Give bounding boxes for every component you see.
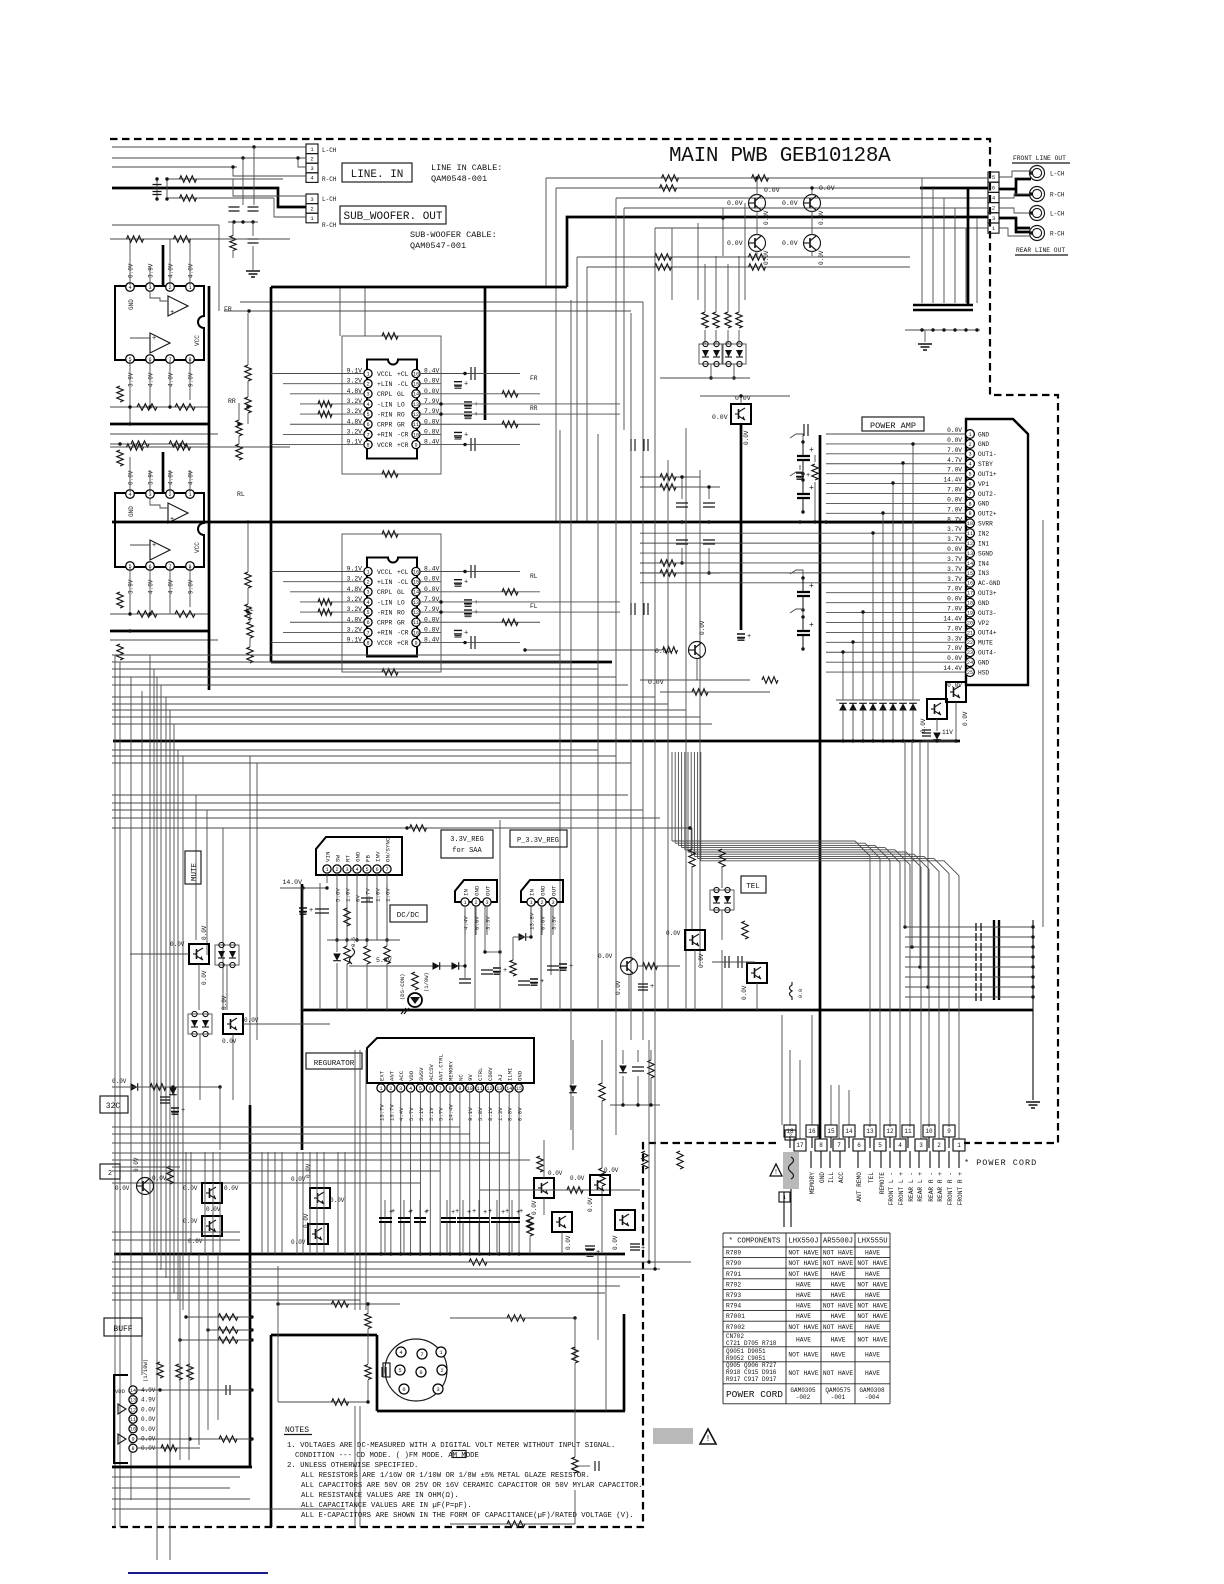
svg-text:0.0V: 0.0V [712,414,728,421]
svg-text:0.0V: 0.0V [183,1185,198,1192]
wire elbow drop [555,188,557,522]
svg-text:11: 11 [130,1417,136,1423]
wire stub [928,1137,930,1148]
wire bus to power cord connector [675,843,880,1139]
junction [458,1252,461,1255]
pin 2 [166,490,175,499]
pin 16 [412,567,420,575]
wire [441,601,620,603]
wire [872,710,874,741]
wire pin drop [400,1092,402,1254]
wire bus to power cord connector [682,848,900,1139]
wire [694,950,696,1010]
svg-text:ANT: ANT [388,1070,395,1081]
wire [238,403,240,420]
wire horizontal [112,1166,180,1168]
electrolytic capacitor [797,456,810,460]
pin 1 EXT [377,1084,385,1092]
wire lead [880,1151,882,1168]
electrolytic capacitor [444,1218,456,1222]
wire pin stub left [342,383,364,385]
wire 5.8V line [349,965,465,967]
wire [441,423,540,425]
svg-text:+: + [650,983,654,991]
svg-text:NOT HAVE: NOT HAVE [857,1313,887,1320]
pin 6 [364,420,372,428]
wire [441,403,620,405]
outer frame rear amp [342,534,441,672]
wire to power amp pin [826,582,965,584]
wire pin outs 2 [169,567,171,614]
svg-text:+: + [424,1209,428,1217]
electrolytic capacitor [464,599,478,607]
svg-text:4: 4 [366,600,369,606]
svg-text:-001: -001 [831,1394,846,1401]
junctions [755,176,758,179]
svg-text:FB: FB [365,855,372,862]
wire pin stub right [420,444,441,446]
wire vertical dense [274,1152,276,1254]
junction [1031,985,1034,988]
pin 1 IN [461,898,469,906]
svg-text:ILL: ILL [828,1172,835,1183]
wire long input [640,562,826,564]
wire horizontal [112,1159,530,1161]
pin 11 [412,618,420,626]
wire [842,710,844,741]
warning triangle [700,1429,716,1444]
wire [346,964,348,1010]
wire [112,166,237,168]
junction [498,1252,501,1255]
capacitor [631,439,635,451]
svg-text:5: 5 [366,610,369,616]
wire pin stub left [342,591,364,593]
wire long vertical bus [630,313,632,1040]
pin 13 [412,400,420,408]
svg-text:7.0V: 7.0V [947,625,962,632]
DIN pin 1 [436,1347,446,1357]
wire pin drop [429,1092,431,1254]
resistor [599,1168,605,1186]
electrolytic capacitor [473,1218,485,1222]
junctions [801,576,804,579]
wire [721,910,723,940]
wire pin feeds [189,239,191,285]
wire stub [907,1137,909,1148]
wire pin drop [439,1092,441,1254]
underline [284,1434,312,1436]
diode pack [188,1011,212,1036]
junctions [529,935,532,938]
junction [1029,211,1032,214]
resistor [344,908,350,926]
resistor [660,185,677,191]
IC system controller (15-pin) [367,1038,534,1083]
thick stub [162,452,165,494]
wire [744,203,746,300]
svg-text:P_3.3V_REG: P_3.3V_REG [517,837,559,845]
svg-text:2: 2 [335,867,338,873]
svg-text:3.7V: 3.7V [947,526,962,533]
svg-text:4: 4 [898,1142,902,1149]
wire to power cord pins [848,1090,850,1125]
RCA jack L-CH [1030,206,1045,221]
svg-text:1: 1 [968,432,971,438]
pin 12 CD8V [485,1084,493,1092]
wire [354,1406,356,1527]
resistor [332,1301,349,1307]
wire bus to power cord connector [701,861,959,1139]
svg-text:1: 1 [188,492,191,498]
svg-text:LO: LO [397,599,405,606]
wire [327,939,400,941]
box [185,851,201,884]
wire [130,337,150,339]
power amp pin 22 MUTE [966,638,975,647]
wire drop [862,612,864,700]
svg-text:16: 16 [413,569,419,575]
wire [892,710,894,741]
wire to ground [924,330,926,342]
IC body rear amp [367,558,417,657]
wire [529,1236,531,1254]
wire vertical [354,1050,356,1310]
resistor [187,1364,193,1380]
thick wire pin6 to jacks [999,179,1031,195]
svg-text:-RIN: -RIN [377,411,393,418]
transistor [685,930,705,950]
power cord pin 18 18 [784,1125,796,1137]
wire vertical bus left [182,756,184,1310]
wire [660,691,770,693]
wire horizontal bus [112,809,643,811]
wire lead [948,1151,950,1168]
svg-text:LHX555U: LHX555U [857,1238,887,1246]
wire [601,1101,603,1168]
wire input [300,601,342,603]
svg-text:IN1: IN1 [978,540,989,547]
resistor [117,386,123,402]
resistor [663,647,678,653]
wire pin drop [469,1092,471,1254]
wire lead [929,1151,931,1168]
connector power amp body [966,419,1028,685]
capacitor [248,239,259,243]
wire [290,423,342,425]
wire [543,1198,545,1215]
wire [574,1490,576,1524]
thick horizontal amp frame top [271,286,567,289]
svg-text:2: 2 [366,580,369,586]
svg-text:4.0V: 4.0V [168,263,175,278]
wire [462,1200,464,1218]
wire [243,1023,330,1025]
svg-text:NOT HAVE: NOT HAVE [823,1370,853,1377]
svg-text:4: 4 [968,462,971,468]
svg-text:4.0V: 4.0V [148,579,155,594]
svg-text:OUT: OUT [551,885,558,896]
IC regulator P 3.3V reg [521,880,563,902]
wire [112,1086,220,1088]
IC fragment (bottom left, cut) [114,1375,128,1463]
wire vertical [597,1254,599,1340]
resistor [382,333,398,339]
resistor [655,254,672,260]
capacitor [248,207,259,211]
wire transistor [756,178,758,195]
junctions [801,478,804,481]
resistor [176,1364,182,1380]
wire horizontal bus [112,703,668,705]
svg-text:5.7V: 5.7V [438,1107,445,1121]
resistor [117,450,123,466]
wire lead [839,1151,841,1168]
wire vertical drop [156,179,158,199]
svg-text:REAR L -: REAR L - [908,1172,915,1202]
junctions [801,615,804,618]
svg-text:HAVE: HAVE [830,1337,845,1344]
svg-text:32C: 32C [106,1102,121,1111]
resistor [218,1337,238,1343]
wire to power amp pin [826,512,965,514]
wire [249,613,251,622]
svg-text:HAVE: HAVE [865,1324,880,1331]
wire vertical dense [302,1152,304,1254]
wire [574,1363,576,1457]
power cord pin 15 15 [825,1125,837,1137]
pin 2 [988,203,999,213]
svg-text:HAVE: HAVE [865,1370,880,1377]
pin 3 [306,163,318,173]
resistor [655,264,672,270]
wire pin stub left [342,423,364,425]
wire [572,1096,574,1150]
power cord pin 9 9 [943,1125,955,1137]
wire [496,1200,498,1218]
underline [1015,254,1068,256]
wire [336,900,338,952]
DIN pin 5 [395,1365,405,1375]
wire horizontal [112,1133,470,1135]
power amp pin 13 SGND [966,549,975,558]
capacitor [725,956,729,968]
svg-text:EXT: EXT [379,1070,386,1081]
wire [283,433,342,435]
wire vertical bottom [207,1254,209,1430]
wire vertical [365,1050,367,1310]
svg-text:0.0V: 0.0V [222,1038,237,1045]
wire [790,570,803,578]
thick wire bottom-left [112,1466,252,1469]
svg-text:15: 15 [413,580,419,586]
svg-text:4: 4 [128,285,131,291]
junction [389,1252,392,1255]
diode D2 (clamp) [849,703,857,710]
wire pin feeds 2 [189,470,191,492]
wire lead [899,1151,901,1168]
diode D1 (clamp) [839,703,847,710]
wire [650,1050,652,1060]
capacitor bank (top right) [913,305,973,310]
wire [715,330,717,344]
wire [511,1222,513,1254]
wire pin drop [386,873,388,940]
thick wire [623,1314,626,1411]
wire horizontal bus [112,817,660,819]
power cord pin 14 14 [843,1125,855,1137]
resistor [689,849,695,867]
svg-text:GAM0308: GAM0308 [859,1387,885,1394]
junctions [920,328,923,331]
junctions [246,405,249,408]
wire [180,1339,252,1341]
wire [640,572,720,574]
capacitor small [976,973,981,981]
svg-text:7: 7 [420,1351,423,1358]
pin 11 CTRL [476,1084,484,1092]
resistor [167,1166,173,1184]
pin 5 [988,172,999,182]
wire [138,1447,200,1449]
resistor [245,604,251,620]
svg-text:+: + [501,1209,505,1217]
wire pin stub right [420,383,441,385]
svg-text:+: + [152,335,156,343]
svg-text:VCCL: VCCL [377,371,393,378]
svg-text:3: 3 [310,196,313,203]
thick wire [110,630,209,633]
wire to subwoofer pin3 [233,179,306,196]
electrolytic capacitor [461,1218,473,1222]
capacitor small [976,983,981,991]
svg-text:4: 4 [409,1086,412,1092]
electrolytic capacitor [464,609,478,617]
svg-text:0.0V: 0.0V [291,1176,306,1183]
svg-text:3: 3 [551,900,554,906]
svg-text:7.0V: 7.0V [947,487,962,494]
resistor [469,1259,487,1265]
svg-text:NOT HAVE: NOT HAVE [823,1260,853,1267]
wire [601,1186,603,1254]
svg-text:REGURATOR: REGURATOR [314,1060,355,1068]
svg-text:HAVE: HAVE [865,1292,880,1299]
wire vertical bottom [188,1254,190,1460]
svg-text:3: 3 [992,215,995,222]
power amp pin 18 GND [966,598,975,607]
transistor [590,1175,610,1195]
svg-text:15: 15 [413,382,419,388]
thick horizontal low bus [113,740,960,743]
wire to power amp pin [826,562,965,564]
junctions [903,925,906,928]
electrolytic capacitor [454,381,468,389]
diode [933,733,941,740]
svg-text:3: 3 [485,900,488,906]
svg-text:19: 19 [967,610,973,616]
svg-text:7.0V: 7.0V [947,645,962,652]
svg-text:2: 2 [168,285,171,291]
power amp pin 17 OUT3+ [966,588,975,597]
diode D5 (clamp) [879,703,887,710]
wire long vertical bus [699,470,701,965]
thick wire main bus to line-out pin3 [567,217,988,287]
diode [569,1086,577,1093]
wire cap bank [905,926,1033,928]
svg-text:0.0V: 0.0V [947,596,962,603]
junction [1031,925,1034,928]
svg-text:+: + [467,1209,471,1217]
power amp pin 15 IN3 [966,568,975,577]
svg-text:MAIN PWB GEB10128A: MAIN PWB GEB10128A [669,145,891,168]
DIN pin 4 [396,1347,406,1357]
wire to power amp pin [826,443,965,445]
wire [721,866,723,888]
wire [198,964,200,1010]
svg-text:* COMPONENTS: * COMPONENTS [729,1238,781,1246]
ground cap [585,1246,595,1249]
svg-text:AR5500J: AR5500J [823,1238,853,1246]
resistor [643,963,658,969]
svg-text:SW: SW [335,855,342,862]
svg-text:HAVE: HAVE [865,1250,880,1257]
svg-text:LHX550J: LHX550J [788,1238,818,1246]
wire [622,1076,624,1105]
wire out [441,373,520,375]
wire pin drop [508,1092,510,1254]
resistor [245,572,251,588]
wire [852,710,854,741]
svg-text:NOT HAVE: NOT HAVE [823,1324,853,1331]
wire horizontal bus [112,676,616,678]
ground [246,271,260,277]
wire [919,741,921,967]
power cord pin 8 8 [815,1139,827,1151]
svg-text:GND: GND [978,600,989,607]
pin 10 [129,1425,137,1433]
warning triangle [770,1164,782,1176]
svg-text:+: + [152,542,156,550]
resistor [725,312,731,328]
wire long input [640,552,826,554]
capacitor small [976,933,981,941]
wire [232,222,234,236]
wire vertical bus left [141,691,143,1375]
box [340,206,446,224]
svg-text:0.0: 0.0 [798,989,804,998]
wire drop [872,533,874,700]
junction [1031,975,1034,978]
svg-text:1: 1 [379,1086,382,1092]
wire pin drop [488,1092,490,1254]
wire [419,1200,421,1218]
pin 7 [364,430,372,438]
wire [511,1200,513,1218]
electrolytic capacitor [796,472,810,480]
wire pin feeds 2 [129,457,131,492]
svg-text:REAR L +: REAR L + [917,1172,924,1202]
wire [280,887,327,889]
svg-text:2: 2 [937,1142,941,1149]
svg-text:HAVE: HAVE [830,1292,845,1299]
svg-text:FR: FR [530,375,538,382]
wire [238,436,240,444]
capacitor [518,981,530,985]
wire [862,710,864,741]
dashed board border [110,139,1058,1527]
wire vertical dense [267,1152,269,1254]
svg-text:HAVE: HAVE [796,1313,811,1320]
